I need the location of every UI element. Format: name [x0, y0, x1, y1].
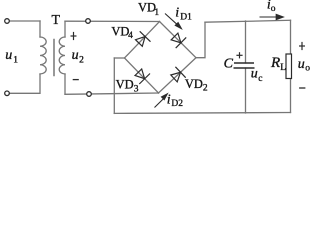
svg-text:c: c — [258, 74, 262, 84]
wire capacitor bottom lead — [245, 68, 247, 113]
svg-text:VD: VD — [185, 77, 203, 91]
wire left stub — [114, 57, 124, 59]
wire top-left input — [9, 20, 40, 22]
terminal input top — [5, 19, 10, 24]
wire secondary top to bridge — [65, 20, 160, 22]
inductor primary winding — [40, 37, 46, 74]
svg-text:D1: D1 — [180, 12, 192, 22]
svg-text:2: 2 — [79, 55, 84, 65]
inductor secondary winding — [59, 37, 65, 74]
svg-text:i: i — [175, 5, 179, 20]
wire capacitor top lead — [245, 21, 247, 63]
wire bridge edge L-T — [125, 22, 160, 59]
svg-text:1: 1 — [13, 55, 18, 65]
arrow iD2 — [155, 94, 168, 108]
svg-text:T: T — [52, 13, 61, 28]
svg-text:1: 1 — [154, 8, 159, 18]
diode VD4 — [136, 31, 151, 46]
terminal secondary bottom — [87, 92, 92, 97]
svg-text:VD: VD — [111, 24, 129, 38]
diode VD3 — [135, 69, 150, 84]
wire right stub — [196, 22, 205, 58]
wire bridge edge T-R — [160, 22, 197, 58]
label - output — [299, 87, 305, 89]
diode VD2 — [171, 67, 186, 82]
label + secondary — [71, 32, 77, 40]
wire right leg lower — [290, 79, 292, 113]
wire secondary bottom lead — [64, 74, 66, 94]
svg-text:3: 3 — [134, 84, 139, 94]
terminal secondary top — [86, 19, 91, 24]
wire primary top lead — [39, 21, 41, 37]
svg-text:R: R — [270, 55, 280, 71]
arrow iD1 — [165, 14, 181, 29]
svg-text:D2: D2 — [171, 99, 183, 109]
svg-text:u: u — [72, 48, 79, 63]
wire primary bottom lead — [9, 74, 40, 93]
wire bridge edge L-B — [125, 58, 159, 93]
wire right leg upper — [290, 20, 292, 54]
svg-text:i: i — [167, 92, 171, 107]
wire secondary top lead — [64, 21, 66, 37]
label - secondary — [73, 79, 79, 81]
svg-text:VD: VD — [138, 1, 156, 15]
label + output — [299, 42, 305, 50]
svg-text:L: L — [280, 63, 286, 73]
svg-text:u: u — [5, 48, 12, 63]
wire bottom rail — [114, 112, 290, 115]
svg-text:o: o — [271, 4, 276, 14]
svg-text:4: 4 — [128, 31, 133, 41]
capacitor C plates — [234, 63, 255, 68]
wire left vertical — [113, 58, 115, 113]
resistor RL — [286, 54, 292, 79]
svg-text:C: C — [224, 57, 234, 72]
svg-text:u: u — [298, 57, 305, 72]
wire secondary bottom to bridge — [65, 93, 159, 94]
wire bridge edge B-R — [159, 58, 197, 93]
terminal input bottom — [5, 91, 10, 96]
transformer core — [53, 40, 55, 76]
diode VD1 — [171, 33, 186, 48]
svg-text:2: 2 — [203, 84, 208, 94]
wire top rail — [205, 20, 291, 22]
label + capacitor — [236, 52, 242, 58]
svg-text:u: u — [251, 66, 258, 81]
arrow io — [260, 14, 284, 19]
svg-text:VD: VD — [116, 78, 134, 92]
svg-text:o: o — [305, 64, 310, 74]
